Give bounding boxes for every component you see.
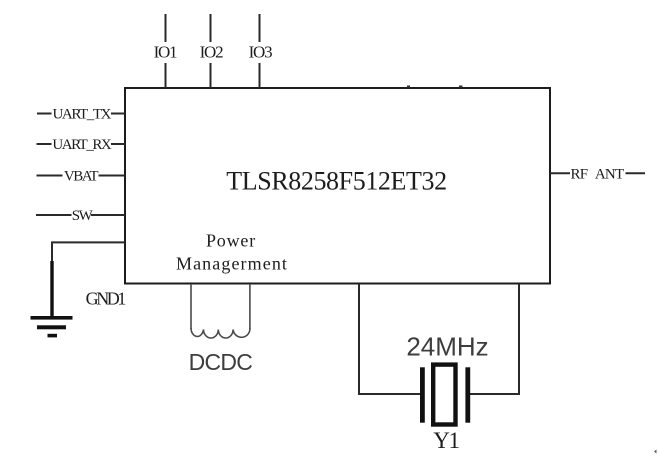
wire pin IO3 to IC <box>259 63 261 88</box>
node SW label <box>72 208 94 224</box>
wire UART_RX to IC <box>111 143 125 145</box>
svg-text:UART_TX: UART_TX <box>52 107 111 123</box>
wire pin IO3 upper stub <box>259 14 261 42</box>
node GND1 label <box>86 289 126 309</box>
svg-text:TLSR8258F512ET32: TLSR8258F512ET32 <box>226 167 446 196</box>
wire crystal left vertical <box>359 284 421 394</box>
node IO1 label <box>154 43 178 62</box>
node IO2 label <box>200 43 224 62</box>
wire UART_TX left dash <box>37 113 52 115</box>
svg-text:IO2: IO2 <box>200 43 224 62</box>
svg-text:RF: RF <box>571 166 588 182</box>
wire VBAT left dash <box>37 175 63 177</box>
svg-text:IO1: IO1 <box>154 43 178 62</box>
crystal Y1 right plate <box>465 367 470 422</box>
svg-text:GND1: GND1 <box>86 289 126 309</box>
wire UART_TX to IC <box>111 113 125 115</box>
svg-text:UART_RX: UART_RX <box>52 137 111 153</box>
op-amp U1 : IC body TLSR8258F512ET32 <box>125 88 550 284</box>
crystal Y1 body <box>433 365 455 425</box>
wire pin IO2 upper stub <box>210 14 212 42</box>
crystal Y1 left plate <box>420 367 425 422</box>
node IO3 label <box>249 43 273 62</box>
wire GND thick vertical <box>50 261 53 317</box>
wire GND horizontal from IC <box>52 242 125 262</box>
wire pin IO1 to IC <box>165 63 167 88</box>
node UART_TX label <box>52 107 111 123</box>
svg-text:ANT: ANT <box>595 166 624 182</box>
node RF ANT label <box>571 166 624 182</box>
wire UART_RX left dash <box>37 143 52 145</box>
wire SW to IC <box>91 214 125 216</box>
svg-text:24MHz: 24MHz <box>406 331 488 361</box>
svg-text:VBAT: VBAT <box>64 169 99 185</box>
node VBAT label <box>64 169 99 185</box>
wire pin IO2 to IC <box>210 63 212 88</box>
label Power Management block <box>176 231 288 274</box>
wire pin IO1 upper stub <box>165 14 167 42</box>
svg-text:Y1: Y1 <box>433 428 459 453</box>
artifact small mark bottom right <box>654 450 657 454</box>
wire crystal right vertical <box>470 284 520 394</box>
node Y1 label <box>433 428 459 453</box>
svg-text:Managerment: Managerment <box>176 254 288 274</box>
ground GND1 symbol <box>31 316 73 337</box>
label 24MHz <box>406 331 488 361</box>
svg-text:Power: Power <box>206 231 256 251</box>
svg-text:DCDC: DCDC <box>189 349 253 375</box>
wire RF ANT right dash <box>626 172 646 174</box>
inductor DCDC right lead <box>249 284 251 329</box>
svg-text:SW: SW <box>72 208 94 224</box>
label DCDC <box>189 349 253 375</box>
label TLSR8258F512ET32 <box>226 167 446 196</box>
wire VBAT to IC <box>99 175 126 177</box>
inductor DCDC coil bumps <box>191 328 250 338</box>
node UART_RX label <box>52 137 111 153</box>
artifact tick on IC top edge <box>407 86 463 88</box>
wire SW left dash <box>36 214 72 216</box>
svg-text:IO3: IO3 <box>249 43 273 62</box>
inductor DCDC left lead <box>190 284 192 329</box>
wire RF ANT from IC <box>550 172 570 174</box>
